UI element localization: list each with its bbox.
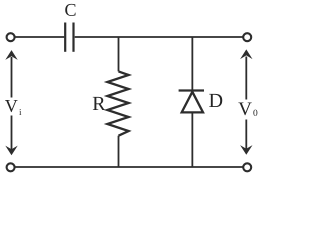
arrowhead: V0 up	[240, 49, 252, 59]
label D (diode)	[209, 94, 222, 107]
label R (resistor)	[93, 97, 106, 110]
wire: diode D anode to bottom rail	[191, 112, 193, 167]
diode D anode triangle	[182, 92, 203, 113]
arrow: Vi lower arrow (pointing down) shaft	[11, 116, 13, 152]
wire: top-left terminal to capacitor C left plate	[15, 36, 64, 38]
wire: top rail junction down to resistor R top	[118, 37, 120, 71]
capacitor C plates	[65, 23, 73, 52]
wire: capacitor C right plate to top-right terminal (through R and D junctions)	[75, 36, 243, 38]
node: top-left input terminal	[7, 33, 15, 41]
arrow: Vi upper arrow (pointing up) shaft	[11, 57, 13, 98]
wire: bottom rail from bottom-left terminal to bottom-right terminal	[15, 166, 243, 168]
label V0 (output voltage)	[238, 102, 257, 116]
node: top-right output terminal	[243, 33, 251, 41]
diode D cathode bar	[179, 89, 204, 91]
wire: top rail junction down to diode D cathode bar	[191, 37, 193, 91]
label C (capacitor)	[65, 4, 75, 16]
node: bottom-left input terminal	[7, 163, 15, 171]
arrowhead: V0 down	[240, 145, 252, 155]
arrowhead: Vi up	[5, 50, 17, 60]
resistor R zigzag body	[107, 71, 128, 135]
arrow: V0 lower arrow (pointing down) shaft	[245, 120, 247, 151]
node: bottom-right output terminal	[243, 163, 251, 171]
label Vi (input voltage)	[5, 100, 21, 115]
arrow: V0 upper arrow (pointing up) shaft	[245, 57, 247, 100]
wire: resistor R bottom to bottom rail	[118, 136, 120, 167]
arrowhead: Vi down	[5, 146, 17, 156]
